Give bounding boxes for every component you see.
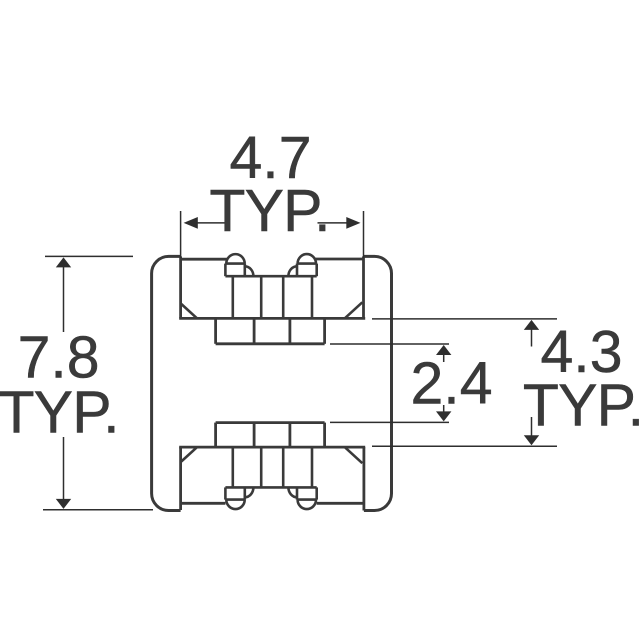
bottom recess line <box>225 486 316 489</box>
svg-text:2.4: 2.4 <box>410 351 492 417</box>
dimension 7.8 extension line bottom <box>43 509 153 511</box>
body outline left half <box>152 256 181 510</box>
top winding verticals <box>233 276 312 318</box>
dimension 2.4 extension line top <box>330 343 449 345</box>
top recess line <box>225 275 316 278</box>
body outline right half <box>364 256 392 510</box>
top flange left chamfer <box>181 304 197 318</box>
dimension 4.7 line and arrows <box>184 217 361 229</box>
dimension 4.7 extension line right <box>363 211 365 258</box>
dimension 4.7 extension line left <box>180 211 182 258</box>
dimension 7.8 line and arrows <box>56 257 71 509</box>
bottom terminal block right <box>288 487 316 509</box>
svg-text:TYP.: TYP. <box>0 380 119 446</box>
dimension 4.3 extension line top <box>372 318 557 320</box>
bottom terminal block left <box>225 487 253 509</box>
dimension 2.4 arrows <box>436 345 451 421</box>
top flange right chamfer <box>345 302 363 318</box>
dimension 2.4 extension line bottom <box>330 421 449 423</box>
dimension 4.3 extension line bottom <box>372 445 557 447</box>
svg-text:TYP.: TYP. <box>209 178 329 244</box>
svg-text:TYP.: TYP. <box>523 373 640 439</box>
bottom flange <box>179 447 365 510</box>
dimension 4.3 arrows <box>524 320 539 445</box>
top terminal block left <box>225 254 253 276</box>
bottom flange right chamfer <box>345 447 363 463</box>
top middle row <box>216 318 325 343</box>
dimension 7.8 extension line top <box>45 255 133 257</box>
bottom middle row <box>216 423 325 448</box>
top terminal block right <box>288 254 316 276</box>
bottom winding verticals <box>233 447 312 487</box>
bottom flange left chamfer <box>181 447 197 461</box>
top flange <box>179 256 365 318</box>
